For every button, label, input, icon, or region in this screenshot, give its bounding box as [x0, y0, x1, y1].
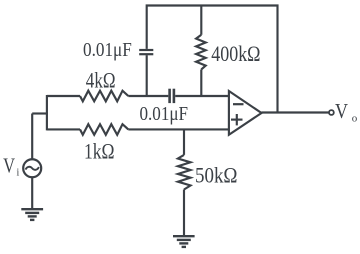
- svg-text:4kΩ: 4kΩ: [86, 68, 116, 93]
- svg-text:i: i: [17, 168, 20, 179]
- svg-text:V: V: [3, 154, 15, 178]
- svg-text:V: V: [335, 99, 348, 123]
- svg-text:0.01μF: 0.01μF: [140, 103, 189, 125]
- svg-text:50kΩ: 50kΩ: [195, 163, 238, 188]
- svg-text:1kΩ: 1kΩ: [84, 139, 115, 164]
- svg-text:o: o: [352, 112, 358, 124]
- svg-text:400kΩ: 400kΩ: [211, 41, 260, 66]
- svg-text:0.01μF: 0.01μF: [83, 39, 132, 61]
